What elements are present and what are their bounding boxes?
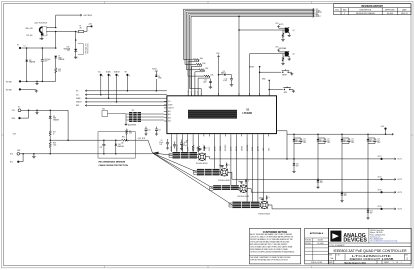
svg-text:C10: C10: [303, 139, 306, 141]
pushbutton RESET: [282, 72, 283, 73]
power flag VDD: [217, 55, 220, 57]
svg-text:+54V BUS: +54V BUS: [83, 15, 93, 17]
svg-text:C12: C12: [351, 139, 354, 141]
connector J3 RJ45 port2: [221, 169, 229, 177]
svg-text:D30: D30: [67, 47, 70, 49]
wire jack to fuse: [46, 31, 75, 33]
svg-text:REV: REV: [405, 254, 408, 256]
svg-text:1µF: 1µF: [351, 140, 354, 142]
svg-text:100V: 100V: [303, 142, 306, 144]
transformer T2 PULSE H5008: [197, 169, 204, 170]
node RESET: [259, 66, 261, 68]
logo Analog Devices: [330, 231, 341, 242]
wire MSD to switch: [269, 89, 283, 91]
diode D20 TVS to ground: [293, 163, 296, 165]
svg-text:08-16-13: 08-16-13: [401, 13, 407, 15]
svg-text:100k: 100k: [53, 144, 57, 146]
wire T3 to RJ45: [239, 186, 240, 188]
wire T2 to RJ45: [220, 170, 221, 172]
wire MIDSPAN rectangle: [249, 54, 251, 96]
wire bottom common: [21, 80, 56, 82]
pushbutton MSD: [284, 89, 285, 90]
svg-text:RECOMMENDED MINIMUM: RECOMMENDED MINIMUM: [99, 161, 126, 163]
svg-text:R30: R30: [122, 137, 125, 139]
svg-text:VDD: VDD: [275, 47, 278, 49]
terminal OUT2: [380, 178, 382, 180]
diode D7 LED GRN: [54, 56, 57, 58]
svg-text:CABLE SURGE PROTECTION: CABLE SURGE PROTECTION: [99, 164, 129, 167]
svg-text:100k: 100k: [205, 68, 209, 70]
svg-text:JP1: JP1: [132, 110, 135, 112]
svg-text:1µF: 1µF: [219, 165, 222, 167]
svg-text:ADDRESS: ADDRESS: [128, 123, 137, 126]
svg-text:E: E: [102, 76, 103, 78]
svg-text:OUT4: OUT4: [397, 209, 402, 211]
surge protection box: [98, 132, 135, 158]
svg-text:PULSE/G H5008: PULSE/G H5008: [218, 180, 230, 182]
wire jack vertical to LED chain: [55, 32, 57, 49]
diode D32 SMDJ58A: [26, 48, 28, 60]
customer notice box: [249, 228, 300, 264]
diode D11 SMAJ58A: [317, 133, 319, 135]
date row: [334, 260, 382, 264]
wire RESET to switch: [260, 71, 282, 73]
terminal E3 GND: [19, 80, 21, 82]
svg-text:D7: D7: [58, 56, 60, 58]
svg-text:C38: C38: [100, 147, 103, 149]
svg-text:PROTECTION: PROTECTION: [88, 44, 90, 54]
svg-text:D: D: [269, 197, 270, 199]
svg-text:OUT2: OUT2: [378, 177, 382, 179]
svg-text:1µF: 1µF: [377, 140, 380, 142]
terminal E7 +54V: [384, 128, 386, 130]
svg-text:E: E: [129, 76, 130, 78]
svg-text:OUT3: OUT3: [378, 190, 382, 192]
svg-text:1: 1: [401, 262, 402, 264]
svg-text:SIZE: SIZE: [329, 254, 332, 256]
terminal E5 3.3V: [18, 109, 21, 112]
svg-text:D10: D10: [295, 139, 298, 141]
wire surge fan: [153, 152, 159, 155]
svg-text:36k: 36k: [58, 71, 61, 73]
capacitor C4 port1: [180, 143, 183, 144]
svg-text:D22: D22: [344, 193, 347, 195]
junction dots OUT lines: [293, 158, 295, 160]
ground at surge input: [33, 153, 35, 155]
svg-text:IEEE802.3AT PoE QUAD PSE CONTR: IEEE802.3AT PoE QUAD PSE CONTROLLER: [334, 249, 408, 253]
svg-text:10k: 10k: [121, 143, 124, 145]
svg-text:C13: C13: [377, 139, 380, 141]
svg-text:100k: 100k: [200, 58, 204, 60]
svg-text:100V: 100V: [327, 142, 330, 144]
svg-text:D8: D8: [53, 116, 55, 118]
diode D21 TVS to ground: [317, 180, 320, 182]
svg-text:1µF: 1µF: [327, 140, 330, 142]
svg-text:E: E: [118, 76, 119, 78]
capacitor C2 0.1uF port1: [166, 143, 169, 144]
svg-text:IC NO.: IC NO.: [336, 254, 341, 256]
wire port3 drops: [230, 136, 232, 185]
resistor R30: [122, 139, 129, 141]
svg-text:OUT1: OUT1: [378, 156, 382, 158]
svg-text:C21: C21: [158, 129, 161, 131]
connector J2 RJ45 port1: [198, 153, 206, 161]
wire pull-up to IC pins: [198, 60, 200, 62]
svg-text:OUT 400: OUT 400: [26, 35, 33, 37]
diode D8 LED GRN: [49, 110, 51, 116]
wire group2 down: [317, 144, 319, 181]
svg-text:100V: 100V: [377, 142, 380, 144]
svg-text:USB +54V: USB +54V: [25, 28, 33, 30]
wire RJ45 port3 to OUT3: [248, 188, 252, 190]
svg-text:0.1µF: 0.1µF: [223, 80, 227, 82]
diode D9 BAS21: [219, 74, 224, 76]
svg-text:Q2: Q2: [293, 54, 295, 56]
svg-text:100k: 100k: [129, 133, 132, 135]
wire 3.3V rail: [21, 109, 68, 111]
svg-text:C1: C1: [24, 45, 26, 47]
diode D port1: [203, 147, 205, 149]
wire I2C bus stair: [184, 8, 315, 10]
svg-text:REVISION HISTORY: REVISION HISTORY: [361, 6, 383, 8]
svg-text:INT: INT: [76, 91, 78, 93]
wire stubs into T4: [229, 202, 233, 204]
svg-text:D20: D20: [296, 164, 299, 166]
connector J5 RJ45 port4: [261, 201, 269, 209]
diode D13 SMAJ58A: [367, 133, 369, 135]
fuse F1 2A: [78, 30, 83, 32]
svg-text:C4: C4: [183, 143, 185, 145]
terminal OUT1: [380, 158, 382, 160]
terminal E2 VEE: [19, 47, 21, 49]
wire RJ45 port2 to OUT2: [228, 171, 232, 173]
wire RJ45 port1 to OUT1: [206, 156, 210, 158]
revision history table: [334, 4, 411, 15]
svg-text:+54V SOURCE: +54V SOURCE: [34, 22, 48, 24]
title block box: [328, 228, 411, 264]
node MSD: [268, 80, 270, 82]
svg-text:100k: 100k: [210, 75, 214, 77]
svg-text:SCL: SCL: [168, 101, 171, 103]
svg-text:1µF: 1µF: [303, 140, 306, 142]
terminal E4 GND: [19, 88, 21, 90]
svg-text:PULSE/G H5008: PULSE/G H5008: [238, 196, 250, 198]
ground JP1: [125, 114, 127, 123]
U1 bottom pins: [171, 134, 173, 137]
svg-text:DK,JH/K: DK,JH/K: [387, 13, 394, 15]
svg-text:PE: PE: [39, 39, 41, 41]
optional TVS bracket: [78, 44, 84, 55]
svg-text:OUT4: OUT4: [378, 206, 382, 208]
svg-text:R1: R1: [186, 141, 188, 143]
svg-text:58V: 58V: [344, 195, 346, 197]
terminal E10 VEE: [17, 153, 20, 156]
resistor R1 0.5ohm sense: [192, 136, 194, 145]
svg-text:OF: OF: [396, 262, 398, 264]
wire VDD rail to IC: [218, 56, 220, 96]
U1 top pins: [187, 93, 189, 96]
diode D port2: [226, 164, 228, 166]
wire RJ45 port4 to OUT4: [269, 204, 273, 206]
svg-text:E: E: [110, 76, 111, 78]
svg-text:D31: D31: [118, 144, 121, 146]
wire stubs into T1: [169, 152, 173, 154]
svg-text:DK,JH/KR: DK,JH/KR: [317, 243, 323, 245]
wire rail to port1: [286, 134, 288, 159]
svg-text:OUT3: OUT3: [397, 192, 402, 194]
transformer T3 PULSE H5008: [213, 185, 221, 186]
capacitor C36 10uF: [41, 48, 43, 60]
transformer T1 PULSE H5008: [173, 152, 181, 153]
svg-text:SCL: SCL: [98, 72, 101, 74]
svg-text:APPROVED: APPROVED: [385, 8, 395, 11]
wire VEE line: [50, 139, 121, 141]
svg-text:GRN: GRN: [53, 118, 56, 120]
svg-text:10V: 10V: [160, 144, 163, 146]
svg-text:GRN: GRN: [58, 57, 61, 59]
connector J1 power jack: [40, 27, 43, 32]
terminal E6 GND: [18, 117, 20, 119]
wire group1 down: [293, 144, 295, 164]
wire port2 drops: [214, 136, 216, 168]
part number row: [336, 254, 405, 261]
svg-text:RESET: RESET: [249, 66, 254, 68]
svg-text:PULSE/G H5008: PULSE/G H5008: [258, 213, 270, 215]
wire +54V BUS: [46, 27, 55, 29]
svg-text:Q1: Q1: [293, 30, 295, 32]
svg-text:C20: C20: [148, 129, 151, 131]
diode D30 SMAJ58A TVS: [75, 32, 77, 49]
approvals box: [305, 228, 329, 264]
capacitor C38: [103, 139, 105, 141]
svg-text:TITLE: SCHEMATIC: TITLE: SCHEMATIC: [329, 244, 345, 247]
svg-text:58V: 58V: [370, 212, 372, 214]
svg-text:1µF: 1µF: [259, 198, 262, 200]
wire 3.3V drop: [67, 110, 69, 140]
U1 thermal pad: [188, 110, 237, 119]
diode D10 SMAJ58A: [293, 133, 295, 135]
connector JP1 ADDRESS: [129, 112, 133, 113]
transformer T4 PULSE H5008: [233, 202, 242, 203]
svg-text:SCL: SCL: [191, 90, 193, 93]
svg-text:10µF: 10µF: [203, 81, 207, 83]
svg-text:C3: C3: [176, 145, 178, 147]
svg-text:+54V: +54V: [381, 126, 385, 128]
svg-text:LTC4266: LTC4266: [243, 112, 253, 115]
svg-text:58V: 58V: [320, 182, 322, 184]
capacitor C port1 1uF: [199, 148, 201, 151]
svg-text:SCL: SCL: [188, 90, 190, 93]
wire group4 down: [367, 144, 369, 211]
connector J4 RJ45 port3: [240, 185, 248, 193]
svg-text:E3 GND: E3 GND: [6, 81, 13, 83]
svg-text:DESCRIPTION: DESCRIPTION: [360, 9, 372, 11]
wire port return line: [20, 153, 153, 155]
diode D31 SMAJ58A: [115, 139, 117, 141]
capacitor C10 1uF 100V: [300, 138, 302, 140]
wire I2C lines: [85, 90, 167, 92]
svg-text:RESET: RESET: [316, 16, 321, 18]
svg-text:DEVICES: DEVICES: [343, 238, 367, 244]
svg-text:C36 10µF: C36 10µF: [44, 59, 50, 61]
diode D port4: [266, 197, 268, 199]
capacitor C port4 1uF: [261, 198, 263, 201]
svg-text:DEMO CIRCUIT 1368B: DEMO CIRCUIT 1368B: [350, 257, 394, 261]
resistor R26 36k: [55, 68, 57, 73]
terminal E1 +54V: [84, 31, 87, 33]
svg-text:VDD33: VDD33: [152, 68, 157, 70]
svg-text:100V: 100V: [351, 142, 354, 144]
terminal E11 GND: [17, 161, 19, 163]
svg-text:C17: C17: [225, 78, 228, 80]
svg-text:PCB DES.: PCB DES.: [305, 240, 312, 242]
capacitor C12 1uF 100V: [348, 138, 350, 140]
svg-text:CUSTOMER NOTICE: CUSTOMER NOTICE: [263, 231, 288, 234]
svg-text:VEE: VEE: [17, 150, 20, 152]
svg-text:OUT2: OUT2: [397, 179, 402, 181]
svg-text:E4 GND: E4 GND: [6, 89, 13, 91]
resistor R31: [126, 129, 128, 130]
svg-text:E11: E11: [10, 162, 13, 164]
svg-text:VEE: VEE: [268, 148, 270, 151]
svg-text:D23: D23: [370, 211, 373, 213]
svg-text:D11: D11: [319, 139, 322, 141]
resistor R27 1k: [49, 131, 51, 136]
resistor R28 100k: [49, 140, 51, 142]
capacitor C20: [145, 129, 148, 130]
svg-text:SCL: SCL: [198, 90, 200, 93]
svg-text:+54V_RTN: +54V_RTN: [138, 138, 145, 140]
wire port4 rj45 drops: [257, 136, 259, 201]
svg-text:C16: C16: [204, 80, 207, 82]
resistor network pull-ups R14-R17: [184, 59, 194, 61]
wire bus verticals: [183, 9, 185, 59]
op-amp U1 LTC4266: [167, 96, 277, 134]
svg-text:R33: R33: [102, 109, 105, 111]
diode D23 TVS to ground: [367, 210, 370, 212]
svg-text:D: D: [248, 181, 249, 183]
terminal OUT3: [380, 191, 382, 193]
svg-text:R31: R31: [129, 131, 132, 133]
svg-text:OUT2: OUT2: [209, 147, 211, 151]
svg-text:MSD: MSD: [76, 105, 79, 107]
wire port1 drops: [171, 136, 173, 152]
svg-text:Monday, August 5, 2013: Monday, August 5, 2013: [344, 261, 365, 264]
svg-text:D32: D32: [29, 60, 32, 62]
wire stubs into T3: [210, 186, 214, 188]
svg-text:C2: C2: [161, 140, 163, 142]
capacitor C21: [155, 129, 158, 130]
diode D12 SMAJ58A: [341, 133, 343, 135]
svg-text:1µF: 1µF: [238, 181, 241, 183]
svg-text:SENSE3: SENSE3: [225, 145, 227, 151]
wire +54V output rail: [279, 130, 287, 132]
wire T4 to RJ45: [260, 203, 262, 205]
capacitor C port3 1uF: [240, 182, 242, 185]
svg-text:D12: D12: [343, 139, 346, 141]
U1 left pins: [164, 100, 167, 102]
svg-text:100k: 100k: [202, 63, 206, 65]
diode D port3: [245, 180, 247, 182]
diode D22 TVS to ground: [341, 193, 344, 195]
terminal row SCL SDAIN SDAOUT INT: [100, 74, 102, 76]
svg-text:58V: 58V: [296, 165, 298, 167]
ground jack shield: [41, 35, 43, 37]
capacitor C17 0.1uF: [231, 75, 233, 79]
svg-text:APPROVALS: APPROVALS: [310, 232, 324, 235]
wire AUTO base: [239, 29, 283, 31]
svg-text:C11: C11: [327, 139, 330, 141]
svg-text:R28: R28: [53, 143, 56, 145]
svg-text:INT: INT: [125, 72, 128, 74]
svg-text:VDD: VDD: [275, 23, 278, 25]
JP1 pins: [126, 113, 129, 115]
svg-text:D5: D5: [158, 76, 160, 78]
U1 right pin: [277, 130, 280, 132]
wire stubs into T2: [193, 169, 197, 171]
wire terminal drops: [100, 75, 102, 95]
wire port4 drops: [246, 136, 248, 201]
LED D5 interrupt: [155, 79, 157, 91]
svg-text:0.1µF: 0.1µF: [159, 142, 163, 144]
svg-text:0.1µF: 0.1µF: [183, 145, 187, 147]
svg-text:Fax: (408)434-0507: Fax: (408)434-0507: [370, 238, 383, 240]
wire RESET net vertical: [238, 16, 240, 95]
svg-text:SHEET: SHEET: [384, 262, 389, 264]
svg-text:58V: 58V: [67, 50, 70, 52]
resistor box RN1: [102, 111, 108, 117]
svg-text:PULSE/G H5008: PULSE/G H5008: [196, 163, 208, 165]
svg-text:1µF: 1µF: [197, 148, 200, 150]
capacitor C13 1uF 100V: [374, 138, 376, 140]
svg-text:E5: E5: [18, 107, 20, 109]
svg-text:D: D: [207, 147, 208, 149]
capacitor C11 1uF 100V: [324, 138, 326, 140]
svg-text:E2: E2: [17, 44, 19, 46]
svg-text:GB-4867: GB-4867: [318, 240, 324, 242]
svg-text:SCL: SCL: [76, 94, 79, 96]
terminal OUT4: [380, 208, 382, 210]
svg-text:R27: R27: [53, 132, 56, 134]
svg-text:E10: E10: [10, 154, 13, 156]
svg-text:R26: R26: [58, 69, 61, 71]
svg-text:D: D: [229, 164, 230, 166]
wire T1 to RJ45: [197, 153, 199, 155]
svg-text:GRN: GRN: [158, 78, 161, 80]
svg-text:100V: 100V: [44, 61, 47, 63]
svg-text:F1: F1: [80, 26, 82, 28]
svg-text:SCL: SCL: [195, 90, 197, 93]
ground 3.3V stub: [36, 110, 38, 111]
svg-text:RESET: RESET: [282, 75, 287, 77]
svg-text:D21: D21: [320, 180, 323, 182]
svg-text:OUT1: OUT1: [397, 159, 402, 161]
svg-text:D13: D13: [369, 139, 372, 141]
svg-text:1: 1: [393, 262, 394, 264]
capacitor C16 10uF: [210, 80, 212, 83]
capacitor C port2 1uF: [221, 165, 223, 168]
wire group3 down: [341, 144, 343, 194]
svg-text:Phone: (408)432-1900: Phone: (408)432-1900: [370, 234, 385, 236]
